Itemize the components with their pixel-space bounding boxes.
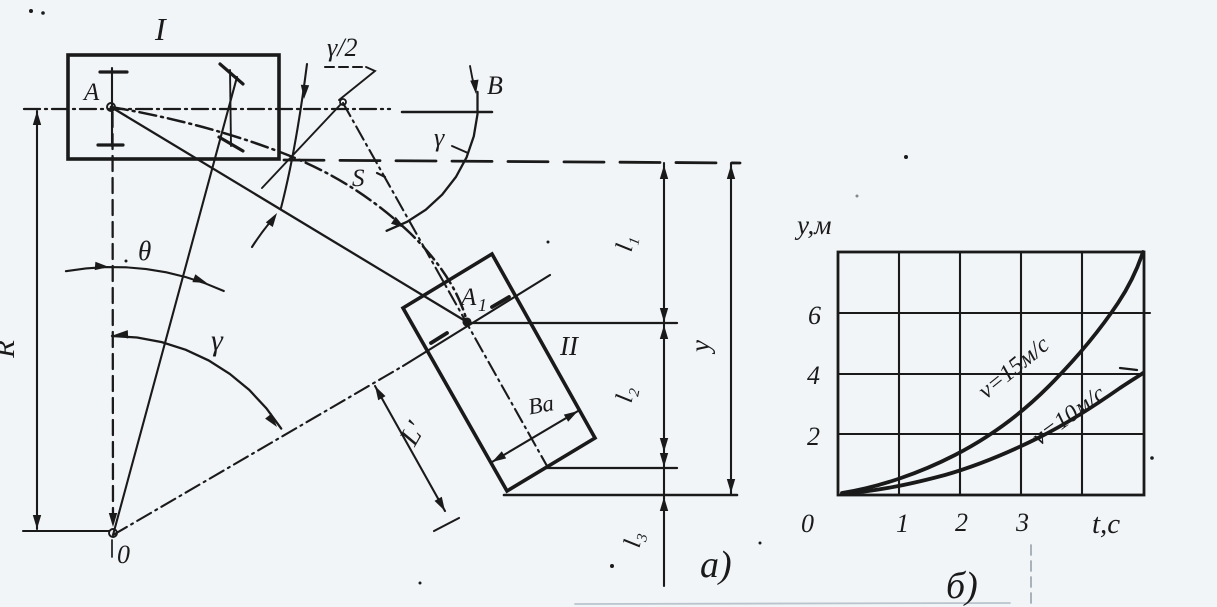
svg-text:γ/2: γ/2	[327, 33, 357, 62]
chord A-A1	[111, 107, 467, 322]
arrow y top	[727, 165, 735, 179]
svg-text:0: 0	[801, 509, 814, 538]
B arrow stem	[470, 66, 475, 89]
arrow on left arc	[301, 85, 309, 99]
svg-text:t,с: t,с	[1092, 508, 1120, 540]
theta angle arc	[66, 267, 224, 291]
point O marker	[109, 529, 117, 537]
arrow y bottom	[727, 479, 735, 493]
gamma label tick	[452, 146, 468, 153]
R dimension line	[36, 111, 38, 529]
faint scan line bottom	[575, 603, 1010, 604]
gamma/2 left tangent line	[262, 104, 341, 188]
svg-text:1: 1	[896, 509, 909, 538]
arrow A-O bottom	[109, 513, 117, 527]
vehicle I front wheel bottom (steered)	[219, 137, 243, 151]
trajectory curve S (dash-dot)	[111, 107, 467, 322]
gamma/2 vertex point	[340, 99, 346, 105]
vehicle II left front wheel	[431, 333, 447, 343]
vertical dash line A to O	[111, 112, 114, 525]
L' dimension line	[375, 386, 445, 511]
svg-text:3: 3	[1015, 508, 1029, 537]
svg-text:y: y	[685, 340, 715, 355]
svg-text:B: B	[487, 71, 503, 100]
point A marker	[107, 103, 115, 111]
arrow R top	[33, 111, 41, 125]
svg-text:R: R	[0, 340, 21, 359]
svg-text:Bа: Bа	[526, 390, 556, 419]
curve v=10	[842, 373, 1143, 494]
arrow gamma right	[265, 413, 277, 427]
svg-text:A: A	[82, 79, 100, 106]
vehicle I rear axle	[111, 68, 113, 146]
arrow B	[470, 80, 478, 94]
svg-text:θ: θ	[138, 236, 151, 266]
vehicle I body	[68, 55, 279, 159]
arrow l1 top	[660, 165, 668, 179]
gamma/2 leader check	[339, 67, 375, 100]
svg-text:б): б)	[946, 565, 978, 607]
svg-text:2: 2	[807, 422, 820, 451]
radius line O to front axle	[113, 77, 237, 535]
arrow at chord	[266, 213, 277, 227]
Ba dimension line	[492, 411, 578, 462]
vehicle II axis dash-dot line from gamma/2 vertex through A1	[343, 103, 547, 466]
left construction arc	[281, 64, 307, 208]
svg-text:1: 1	[478, 295, 487, 315]
svg-text:γ: γ	[211, 324, 224, 357]
gamma/2 label underline dashed	[325, 66, 366, 68]
svg-text:I: I	[154, 11, 167, 47]
arrow theta left	[95, 262, 109, 270]
tick below O	[111, 540, 113, 557]
svg-text:0: 0	[117, 540, 130, 569]
gamma angle arc lower	[112, 336, 281, 429]
svg-text:4: 4	[807, 361, 820, 390]
arrow L' bottom	[435, 497, 446, 511]
dust specks	[904, 155, 908, 159]
curved arrow stem at chord	[252, 221, 271, 247]
arrow Ba right	[564, 411, 578, 422]
arrow R bottom	[33, 515, 41, 529]
svg-text:y,м: y,м	[794, 210, 831, 240]
arrow Ba left	[492, 451, 506, 462]
vehicle I rear wheel top	[100, 70, 127, 73]
svg-text:а): а)	[700, 544, 732, 586]
arrow l2 bottom	[660, 453, 668, 467]
centerline through A	[24, 108, 390, 110]
vehicle I rear wheel bottom	[98, 143, 123, 146]
arrow on S curve	[391, 217, 405, 228]
svg-text:6: 6	[808, 301, 821, 330]
faint dashed vertical bottom right	[1030, 545, 1032, 604]
lane divider dashed line	[284, 160, 740, 163]
axle dash-dot part near O	[113, 366, 403, 535]
vehicle I front wheel top (steered)	[220, 64, 243, 84]
B arc	[387, 92, 478, 231]
arrow gamma left	[114, 330, 128, 338]
y dimension vertical line	[730, 163, 732, 495]
arrow L' top	[375, 386, 386, 400]
vehicle II right front wheel	[492, 297, 509, 307]
svg-text:S: S	[352, 165, 365, 192]
reference line y=495	[504, 494, 737, 497]
svg-text:II: II	[559, 331, 580, 361]
svg-text:γ: γ	[434, 123, 445, 152]
v10 label dash	[1120, 368, 1137, 370]
vehicle I front axle	[230, 70, 231, 146]
arrow theta right	[192, 274, 207, 283]
svg-text:A: A	[459, 284, 477, 311]
baseline at O	[23, 530, 109, 532]
arrow l3	[660, 497, 668, 511]
graph grid verticals	[899, 252, 1082, 495]
tangent segment at B	[402, 111, 492, 114]
horizontal line from A1	[467, 322, 677, 324]
graph grid horizontals	[838, 313, 1150, 434]
point A1 marker	[463, 318, 470, 325]
front axle line O-A1 solid part and extension	[403, 275, 550, 366]
svg-text:2: 2	[955, 508, 968, 537]
vehicle II body	[403, 254, 595, 491]
arrow l1 bottom	[660, 308, 668, 322]
l dimension vertical line	[663, 163, 665, 586]
reference line y=468	[545, 467, 677, 469]
L' bottom extension tick	[434, 518, 459, 531]
arrow l2 top	[660, 325, 668, 339]
graph box	[838, 252, 1144, 495]
curve v=15	[842, 252, 1143, 493]
S label tick	[377, 173, 385, 177]
arrow l2 bottom double	[660, 438, 668, 452]
